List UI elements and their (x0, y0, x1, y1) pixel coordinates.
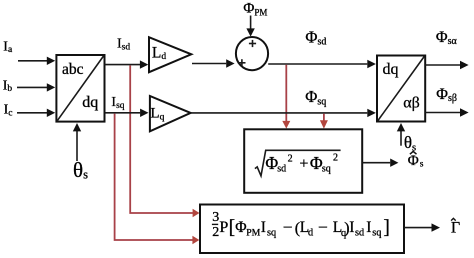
svg-text:PM: PM (246, 228, 260, 239)
wire Phi_sq: Lq to dq/ab block (191, 112, 368, 114)
wire Ld output to summer (192, 63, 226, 65)
wire red Isq branch down to torque block (115, 114, 193, 240)
gain Lq (150, 96, 191, 131)
block dq/alphabeta transform (377, 56, 425, 122)
wire red Isd branch down to torque block (130, 65, 193, 213)
svg-text:+: + (299, 156, 308, 173)
node Phi_s_hat label (408, 151, 424, 169)
svg-text:sq: sq (372, 228, 381, 239)
svg-text:I: I (261, 219, 266, 236)
node Gamma_hat label (451, 218, 460, 236)
wire Phi_sd: summer to dq/ab block (268, 63, 367, 65)
svg-text:Γ: Γ (451, 219, 460, 236)
wire Phi_s_alpha output (425, 64, 460, 66)
summing junction (236, 37, 268, 70)
svg-text:2: 2 (212, 225, 219, 240)
wire torque output (404, 227, 432, 229)
block sqrt(Phi_sd^2+Phi_sq^2) (244, 129, 362, 193)
wire Isq: block to Lq gain (105, 112, 141, 114)
svg-text:−: − (318, 217, 328, 237)
block torque estimator (200, 205, 404, 254)
gain Ld (149, 37, 191, 72)
svg-text:dq: dq (82, 94, 98, 111)
svg-text:d: d (308, 228, 314, 239)
wire Ib input (17, 86, 48, 88)
wire Ic input (17, 112, 48, 114)
svg-text:−: − (283, 217, 293, 237)
svg-text:P: P (219, 219, 228, 236)
wire Phi_PM into summer (250, 16, 252, 30)
svg-text:Φ: Φ (235, 219, 246, 236)
wire red Phi_sq branch into sqrt block (323, 114, 325, 121)
svg-text:3: 3 (212, 210, 219, 225)
svg-text:dq: dq (383, 61, 399, 78)
wire Isd: block to Ld gain (105, 64, 141, 66)
block abc/dq transform (56, 55, 104, 122)
svg-text:[: [ (229, 218, 236, 239)
svg-text:sq: sq (322, 164, 331, 175)
wire Phi_s_beta output (425, 112, 460, 114)
svg-text:abc: abc (62, 61, 84, 78)
svg-text:sd: sd (355, 228, 365, 239)
wire sqrt output to Phi_s_hat (362, 162, 390, 164)
svg-text:I: I (366, 219, 371, 236)
wire Ia input (18, 60, 48, 62)
svg-text:sd: sd (277, 163, 286, 174)
wire red Phi_sd branch into sqrt block (285, 65, 287, 122)
svg-text:sq: sq (267, 228, 276, 239)
svg-text:2: 2 (333, 153, 338, 164)
wire theta_s into abc/dq block (76, 131, 78, 161)
svg-text:]: ] (383, 218, 390, 239)
svg-text:αβ: αβ (403, 95, 420, 112)
wire theta_s into dq/ab block (400, 131, 402, 146)
svg-text:I: I (349, 219, 354, 236)
svg-text:2: 2 (288, 154, 293, 165)
